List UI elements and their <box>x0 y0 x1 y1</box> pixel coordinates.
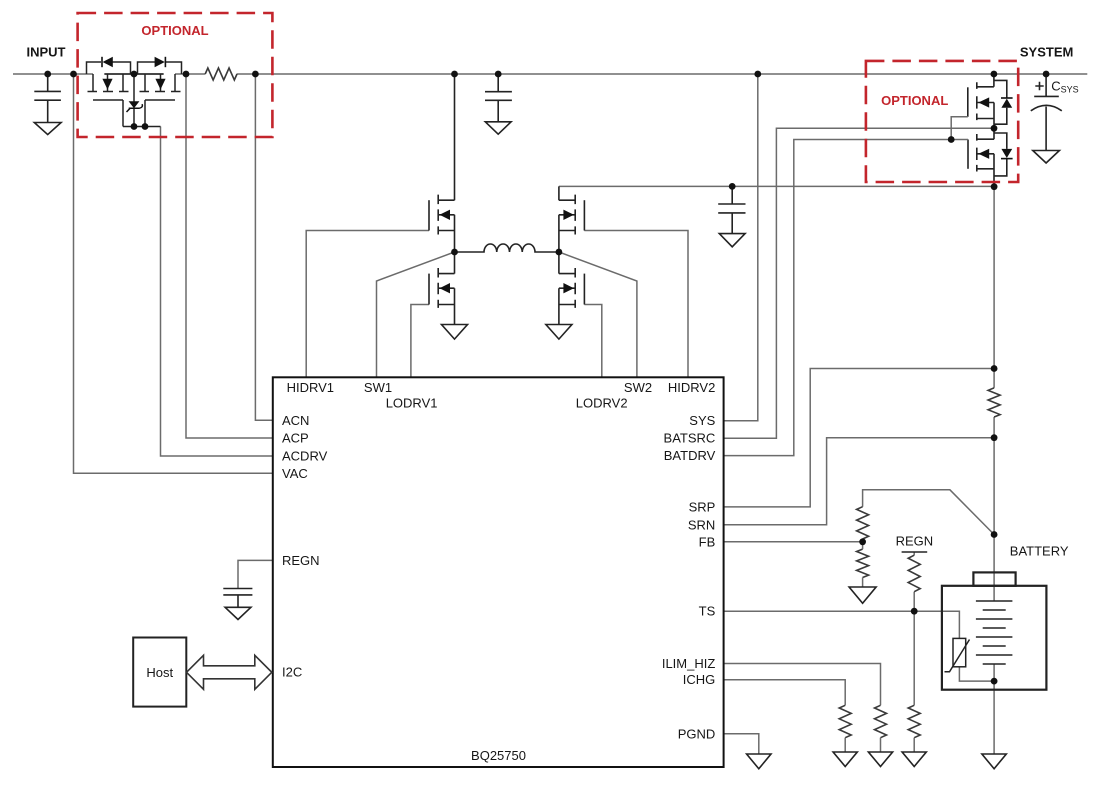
svg-text:BATTERY: BATTERY <box>1010 543 1069 558</box>
Q8 body arrow <box>978 149 989 159</box>
ground under REGN cap <box>225 607 251 619</box>
battery pack box <box>942 586 1047 690</box>
wire top input/system rail segments <box>13 73 1087 75</box>
resistor battery sense RSNS <box>988 388 1000 417</box>
svg-text:ACDRV: ACDRV <box>282 448 328 463</box>
diode body D1 (points left) <box>102 57 113 67</box>
node TS junction <box>911 608 918 615</box>
wire LODRV2 <box>584 305 601 378</box>
resistor TS divider lower <box>908 705 920 737</box>
wire SYS pin net <box>724 74 758 421</box>
ground PGND <box>747 754 771 769</box>
zener D3 gate clamp <box>129 101 140 108</box>
ground under TS resistor <box>902 752 926 767</box>
svg-text:INPUT: INPUT <box>27 45 66 60</box>
wire SRN net <box>724 438 995 525</box>
capacitor REGN bypass <box>223 589 252 608</box>
node mid-rail cap <box>729 183 736 190</box>
transistor Q7 BATFET upper <box>968 74 1007 128</box>
svg-text:LODRV1: LODRV1 <box>386 395 438 410</box>
node ACFET center <box>131 71 138 78</box>
svg-text:SYSTEM: SYSTEM <box>1020 45 1073 60</box>
transistor Q2 low-side buck FET <box>429 252 455 325</box>
svg-text:FB: FB <box>699 534 716 549</box>
ground under CIN <box>34 123 61 135</box>
node SW1 <box>451 249 458 256</box>
wire ICHG net <box>724 680 846 706</box>
node SRP <box>991 365 998 372</box>
inductor L1 <box>455 244 559 252</box>
node BATFET bottom <box>991 183 998 190</box>
svg-text:SYS: SYS <box>689 413 715 428</box>
node Q1 drain rail <box>451 71 458 78</box>
node VAC <box>70 71 77 78</box>
resistor FB divider upper <box>857 507 869 539</box>
svg-text:HIDRV2: HIDRV2 <box>668 380 715 395</box>
wire BATSRC net <box>724 128 995 438</box>
node SYS tap <box>754 71 761 78</box>
wire HIDRV1 <box>306 231 429 378</box>
svg-text:ACP: ACP <box>282 431 309 446</box>
Q8 body diode (points down) <box>1001 149 1013 159</box>
diode body D2 (points right) <box>155 57 166 67</box>
svg-text:REGN: REGN <box>896 534 934 549</box>
svg-text:VAC: VAC <box>282 466 308 481</box>
svg-text:BATSRC: BATSRC <box>664 431 716 446</box>
wire ILIM res to gnd <box>880 738 882 752</box>
thermistor RT <box>953 638 966 666</box>
optional box left (red dashed) <box>78 13 273 137</box>
svg-text:BQ25750: BQ25750 <box>471 748 526 763</box>
ground under Q2 <box>442 325 468 340</box>
wire ACDRV net <box>161 127 273 457</box>
svg-text:ILIM_HIZ: ILIM_HIZ <box>662 656 716 671</box>
wire TS res to gnd <box>913 738 915 752</box>
node BATFET mid <box>991 125 998 132</box>
node mid cap <box>495 71 502 78</box>
svg-text:ICHG: ICHG <box>683 672 716 687</box>
svg-text:OPTIONAL: OPTIONAL <box>881 93 948 108</box>
resistor ICHG <box>839 705 851 737</box>
gate network + wires of ACFET pair <box>123 74 161 127</box>
svg-text:ACN: ACN <box>282 413 309 428</box>
capacitor on SYS-BAT mid rail <box>718 186 745 233</box>
wire VAC net <box>74 74 273 473</box>
Q6 body arrow <box>155 79 165 90</box>
transistor Q6 input ACFET right <box>134 62 182 100</box>
svg-text:HIDRV1: HIDRV1 <box>287 380 334 395</box>
wire ACP net <box>186 74 273 438</box>
wire TS net <box>724 611 960 638</box>
svg-text:SW2: SW2 <box>624 380 652 395</box>
wire FB divider top to battery rail <box>863 490 995 535</box>
resistor input rail (ACP-ACN) <box>205 68 237 80</box>
resistor REGN-TS pullup <box>908 555 920 592</box>
resistor ILIM_HIZ <box>875 705 887 737</box>
BATFET gate wires <box>951 117 968 140</box>
node FB top <box>991 531 998 538</box>
wire REGN divider <box>913 552 915 705</box>
wire SW2 <box>559 252 637 377</box>
wire LODRV1 <box>411 305 429 378</box>
svg-text:Host: Host <box>146 665 173 680</box>
ground under ICHG resistor <box>833 752 857 767</box>
transistor Q5 input ACFET left <box>87 62 135 100</box>
node ACP <box>183 71 190 78</box>
wire FB net <box>724 541 863 543</box>
REGN supply stub <box>902 551 928 553</box>
wire battery rail <box>993 187 995 754</box>
capacitor CIN input bypass <box>34 74 61 123</box>
svg-text:REGN: REGN <box>282 553 320 568</box>
svg-text:BATDRV: BATDRV <box>664 448 716 463</box>
ground under mid cap <box>485 122 511 134</box>
svg-text:PGND: PGND <box>678 726 716 741</box>
transistor Q4 low-side boost FET <box>559 252 585 325</box>
Q7 body diode (points up) <box>1001 98 1013 108</box>
wire ICHG res to gnd <box>844 738 846 752</box>
svg-text:OPTIONAL: OPTIONAL <box>141 23 208 38</box>
wire ILIM_HIZ net <box>724 664 881 706</box>
node ACFET gate b <box>142 123 149 130</box>
ground under FB divider <box>849 587 876 603</box>
node FB mid <box>859 538 866 545</box>
ground under mid-rail cap <box>719 234 745 247</box>
node BATFET top <box>991 71 998 78</box>
capacitor CSYS polarized <box>1031 74 1062 151</box>
node ACFET gate a <box>131 123 138 130</box>
transistor Q1 high-side buck FET <box>429 74 455 252</box>
svg-text:TS: TS <box>699 603 716 618</box>
capacitor mid rail bypass <box>485 74 512 122</box>
wire HIDRV2 <box>584 231 688 378</box>
Q5 body arrow <box>102 79 112 90</box>
wire REGN pin to cap <box>238 560 273 588</box>
node input cap <box>44 71 51 78</box>
wire ACN net <box>255 74 272 420</box>
I2C double arrow <box>187 655 272 689</box>
ground under ILIM resistor <box>868 752 892 767</box>
svg-text:LODRV2: LODRV2 <box>576 395 628 410</box>
node SRN <box>991 434 998 441</box>
wire SYS-BAT mid rail <box>559 185 994 187</box>
battery cell plates <box>976 601 1013 664</box>
node ACN <box>252 71 259 78</box>
resistor FB divider lower <box>857 549 869 577</box>
ground battery minus <box>982 754 1006 769</box>
node BATFET gate <box>948 136 955 143</box>
wire FB mid <box>862 539 864 587</box>
Host box <box>133 638 186 707</box>
svg-text:I2C: I2C <box>282 664 302 679</box>
svg-text:SRN: SRN <box>688 517 715 532</box>
IC U1 BQ25750 <box>273 377 724 767</box>
wire SW1 <box>377 252 455 377</box>
ground under CSYS <box>1033 151 1060 164</box>
node CSYS <box>1043 71 1050 78</box>
wire SRP net <box>724 369 995 507</box>
wire PGND net <box>724 734 759 754</box>
node battery minus <box>991 678 998 685</box>
node SW2 <box>556 249 563 256</box>
transistor Q3 high-side boost FET <box>559 186 585 252</box>
transistor Q8 BATFET lower <box>968 128 1007 186</box>
svg-text:SRP: SRP <box>689 499 716 514</box>
optional box right (red dashed) <box>866 61 1018 182</box>
ground under Q4 <box>546 325 572 340</box>
wire thermistor bottom <box>959 667 994 681</box>
Q7 body arrow <box>978 97 989 107</box>
svg-text:SW1: SW1 <box>364 380 392 395</box>
wire BATDRV net <box>724 140 952 456</box>
battery terminal tab <box>973 572 1015 585</box>
